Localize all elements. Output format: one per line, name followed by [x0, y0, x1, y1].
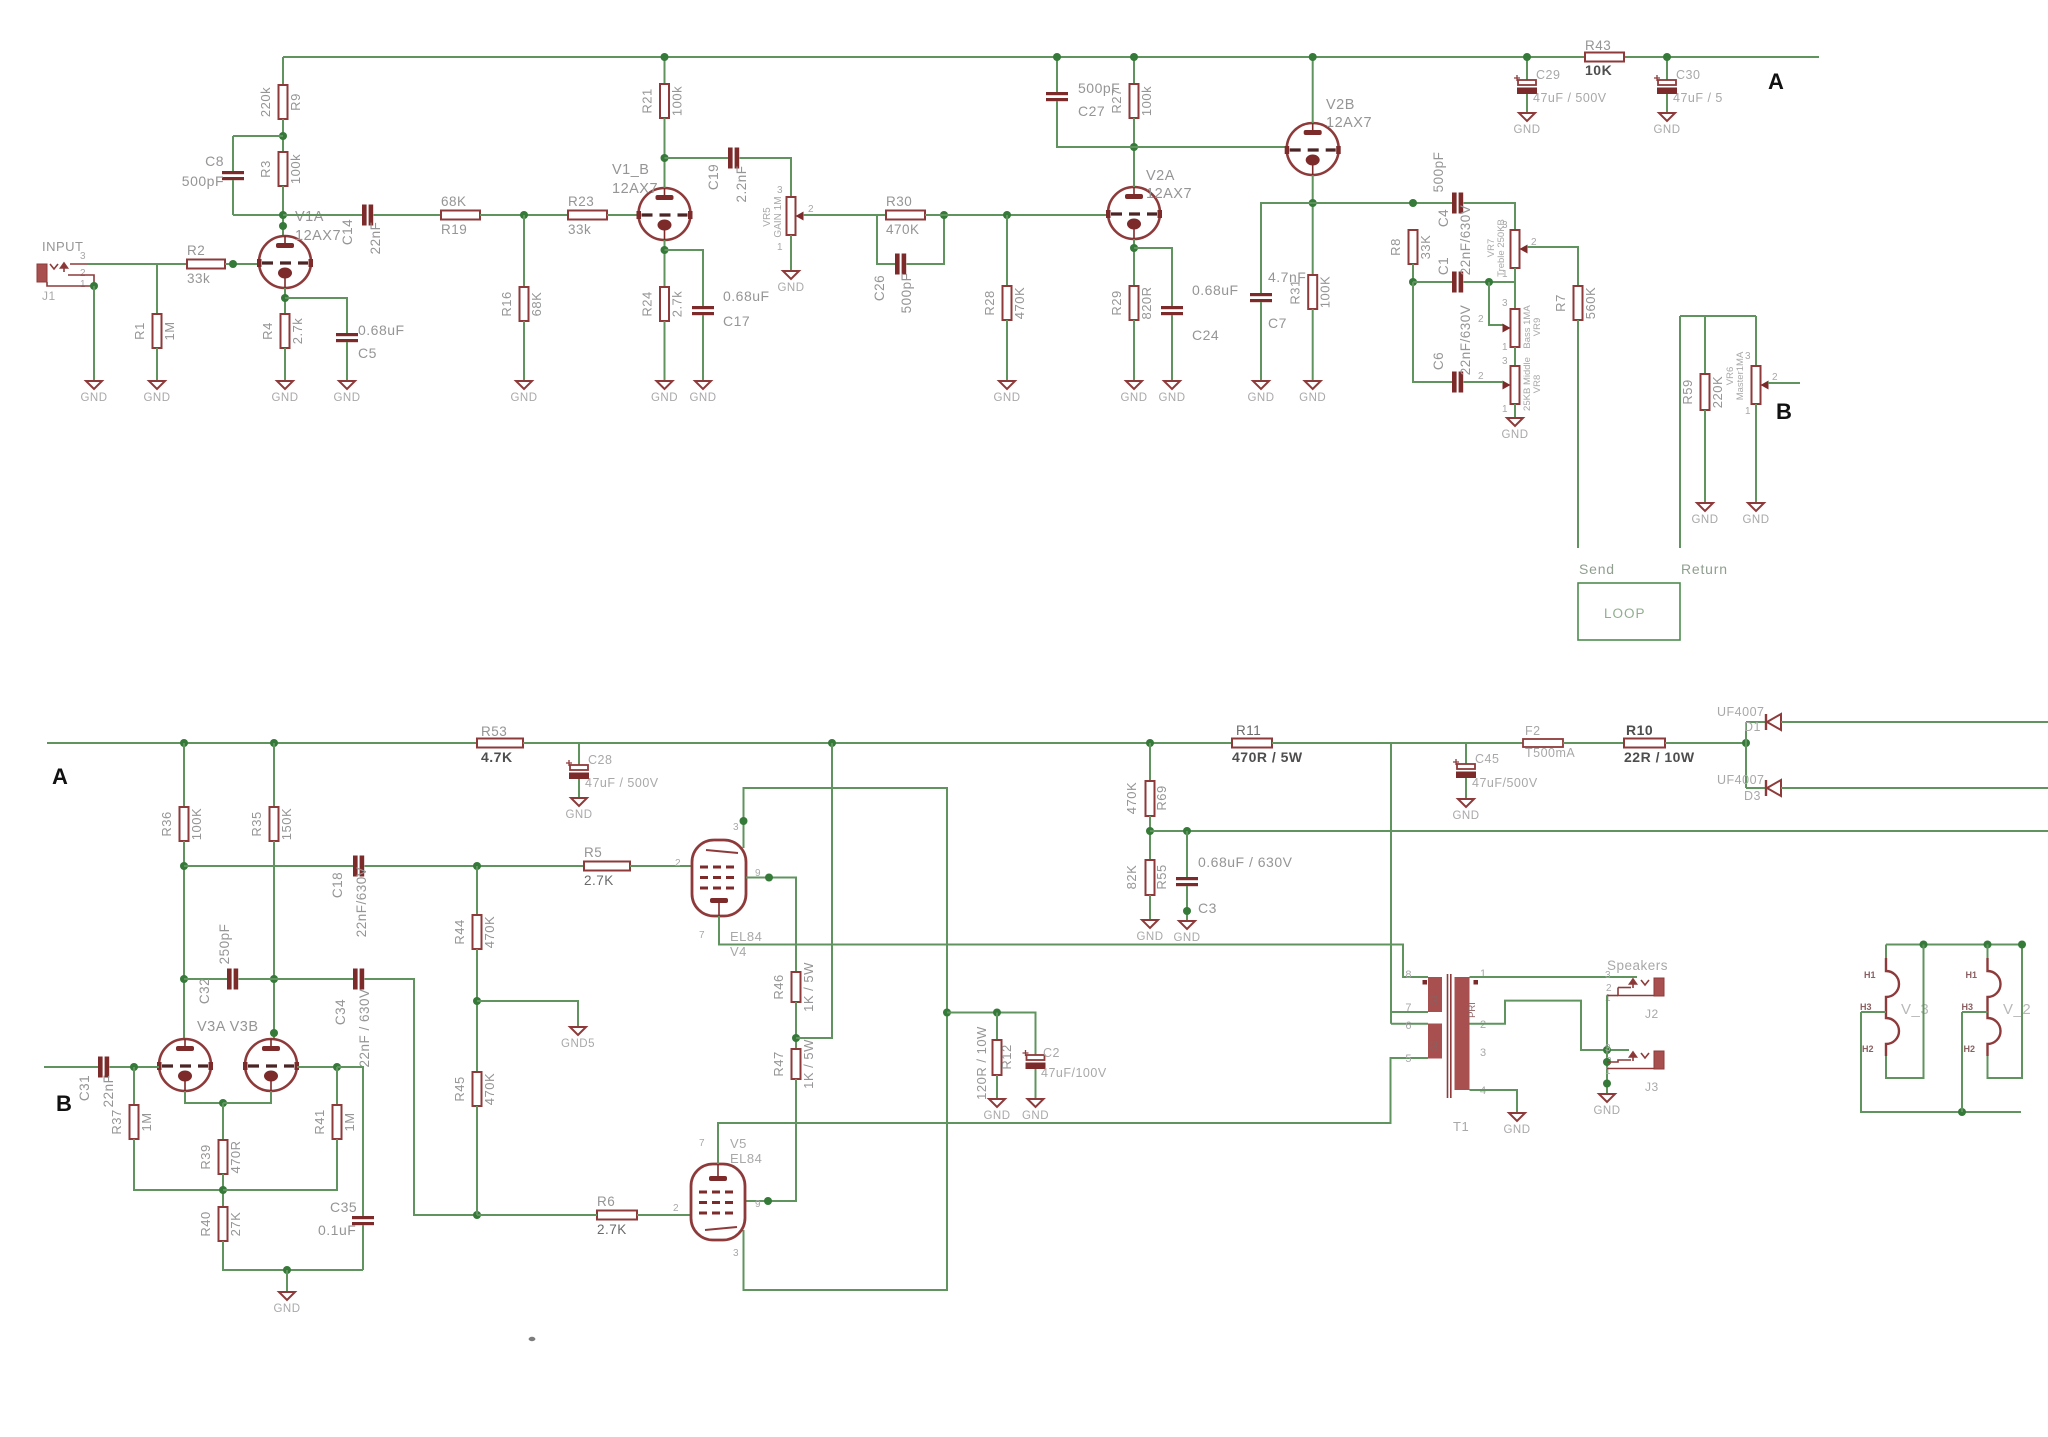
- wire bus to V2B anode: [1312, 57, 1314, 123]
- wire Return vertical: [1679, 316, 1681, 548]
- wire C45 to ground: [1465, 778, 1467, 799]
- ground GND: [1697, 503, 1713, 511]
- wire C1 node down to C6: [1413, 282, 1452, 382]
- resistor R9: [279, 85, 288, 119]
- wire VR7 wiper to R7: [1527, 247, 1578, 286]
- wire to R44: [476, 866, 478, 915]
- wire R59 to ground: [1704, 410, 1706, 503]
- junction R8 top: [1409, 199, 1417, 207]
- junction V_3 return: [1920, 941, 1928, 949]
- junction V5 pin9: [764, 1197, 772, 1205]
- junction bus R27: [1130, 53, 1138, 61]
- svg-text:12AX7: 12AX7: [1146, 186, 1192, 202]
- svg-text:H2: H2: [1964, 1044, 1976, 1054]
- junction bus C27: [1053, 53, 1061, 61]
- wire C8 bottom lead: [232, 180, 234, 215]
- svg-text:C18: C18: [330, 872, 345, 898]
- wire J2 sleeve: [1618, 988, 1654, 996]
- svg-text:470K: 470K: [886, 222, 920, 237]
- wire A bus to R11: [523, 742, 1232, 744]
- svg-text:68K: 68K: [529, 292, 544, 317]
- svg-text:GND: GND: [689, 392, 716, 404]
- junction R9/R3/C8: [279, 132, 287, 140]
- wire VR8 pin1 to ground: [1514, 404, 1516, 418]
- capacitor C19: [728, 148, 733, 169]
- wire V_3 H1: [1885, 945, 1887, 959]
- svg-text:1M: 1M: [342, 1112, 357, 1131]
- svg-text:D1: D1: [1744, 720, 1761, 734]
- wire to R41: [336, 1067, 338, 1105]
- svg-text:3: 3: [1605, 970, 1611, 981]
- resistor R21: [660, 84, 669, 118]
- wire T1 pin4 to ground: [1470, 1090, 1518, 1113]
- svg-text:C35: C35: [330, 1199, 357, 1215]
- wire R2 to V1A grid: [225, 263, 259, 265]
- wire R19 to R23: [480, 214, 568, 216]
- wire bus to C45: [1465, 743, 1467, 764]
- wire R37 to tail node: [134, 1139, 223, 1190]
- ground GND: [1458, 799, 1474, 807]
- resistor R53: [477, 739, 523, 748]
- junction V4 pin3: [740, 817, 748, 825]
- junction R35: [270, 739, 278, 747]
- wire to C1: [1413, 281, 1452, 283]
- wire F2 to R10: [1563, 742, 1624, 744]
- junction R69: [1146, 739, 1154, 747]
- svg-text:22nF: 22nF: [368, 222, 383, 255]
- svg-text:GND: GND: [1653, 124, 1680, 136]
- capacitor C14: [362, 205, 367, 226]
- svg-text:R37: R37: [109, 1109, 124, 1134]
- svg-text:Send: Send: [1579, 561, 1615, 577]
- svg-text:C4: C4: [1436, 209, 1451, 227]
- svg-text:R69: R69: [1154, 785, 1169, 810]
- pentode V4 EL84: [692, 840, 746, 916]
- ground GND: [999, 381, 1015, 389]
- wire heater bus top: [1886, 944, 2022, 946]
- wire bus to R27: [1133, 57, 1135, 84]
- wire D1 to HV winding: [1781, 721, 2048, 723]
- svg-text:H3: H3: [1860, 1002, 1872, 1012]
- svg-text:3: 3: [733, 1248, 739, 1259]
- junction cathode rail: [943, 1009, 951, 1017]
- wire C6 to VR8 wiper: [1464, 381, 1504, 383]
- wire R3 to V1A anode: [282, 186, 284, 236]
- svg-text:1: 1: [1480, 968, 1487, 980]
- svg-text:GND: GND: [1173, 932, 1200, 944]
- capacitor C17: [692, 306, 714, 309]
- junction V1_B cathode: [661, 246, 669, 254]
- junction V4 pin9: [765, 874, 773, 882]
- junction J3 ring: [1603, 1058, 1611, 1066]
- block LOOP (effects loop): [1578, 583, 1680, 640]
- svg-text:R30: R30: [886, 194, 912, 209]
- wire cathode to C5: [285, 298, 347, 333]
- svg-text:470K: 470K: [1124, 782, 1139, 814]
- svg-text:120R / 10W: 120R / 10W: [974, 1026, 989, 1100]
- potentiometer VR8 25KB Middle: [1511, 366, 1520, 404]
- svg-text:820R: 820R: [1139, 286, 1154, 319]
- svg-text:7: 7: [699, 930, 705, 941]
- wire bus to C27: [1056, 57, 1058, 92]
- wire V4/V5 cathode bus: [744, 788, 948, 1290]
- svg-text:7: 7: [699, 1138, 705, 1149]
- wire C28 to ground: [578, 779, 580, 798]
- wire bias node to right edge: [1150, 830, 2048, 832]
- svg-text:T1: T1: [1453, 1119, 1469, 1134]
- capacitor C4: [1452, 193, 1457, 214]
- junction V2A plate node: [1130, 143, 1138, 151]
- wire R31 to ground: [1312, 309, 1314, 381]
- svg-text:GND: GND: [565, 809, 592, 821]
- svg-text:V_2: V_2: [2003, 1001, 2031, 1018]
- svg-text:2.2nF: 2.2nF: [734, 165, 749, 202]
- svg-text:C2: C2: [1043, 1046, 1060, 1060]
- junction V1A anode pin: [279, 222, 287, 230]
- svg-text:100k: 100k: [670, 86, 685, 116]
- resistor R47: [792, 1049, 801, 1079]
- junction bus R21: [661, 53, 669, 61]
- svg-text:R46: R46: [771, 974, 786, 999]
- jack J3: [1654, 1051, 1664, 1069]
- svg-text:22R / 10W: 22R / 10W: [1624, 749, 1695, 765]
- junction C32 left: [180, 975, 188, 983]
- wire V3B cathode: [223, 1091, 271, 1103]
- fuse F2: [1523, 739, 1563, 747]
- svg-text:1K / 5W: 1K / 5W: [801, 1039, 816, 1089]
- resistor R36: [180, 807, 189, 841]
- svg-text:0.68uF: 0.68uF: [358, 322, 405, 338]
- resistor R40: [219, 1207, 228, 1241]
- ground GND: [1142, 920, 1158, 928]
- svg-text:R21: R21: [640, 88, 655, 113]
- wire top B+ bus left of R43: [283, 56, 1585, 58]
- svg-text:1: 1: [1502, 404, 1508, 415]
- junction R8 bottom / C1 / C6: [1409, 278, 1417, 286]
- svg-text:VR8: VR8: [1532, 375, 1543, 393]
- svg-text:R40: R40: [198, 1211, 213, 1236]
- svg-text:GND: GND: [80, 392, 107, 404]
- junction screen feed: [828, 739, 836, 747]
- resistor R19: [441, 211, 480, 220]
- wire R46 to R47: [795, 1002, 797, 1049]
- svg-text:R24: R24: [640, 291, 655, 316]
- resistor R46: [792, 972, 801, 1002]
- wire VR6 pin1 to ground: [1755, 404, 1757, 503]
- wire C27 to plate node: [1057, 101, 1134, 147]
- junction rectifier: [1742, 739, 1750, 747]
- svg-text:GND: GND: [273, 1303, 300, 1315]
- capacitor C26: [895, 254, 900, 275]
- svg-text:GND: GND: [1742, 514, 1769, 526]
- wire VR5 pin1 to ground: [790, 235, 792, 271]
- resistor R39: [219, 1140, 228, 1174]
- svg-text:GND: GND: [271, 392, 298, 404]
- svg-text:GND: GND: [333, 392, 360, 404]
- wire R12 to ground: [996, 1075, 998, 1099]
- resistor R28: [1003, 286, 1012, 320]
- svg-text:82K: 82K: [1124, 865, 1139, 890]
- svg-text:C32: C32: [197, 978, 212, 1004]
- svg-text:J3: J3: [1645, 1080, 1659, 1094]
- svg-text:R9: R9: [288, 93, 303, 111]
- svg-text:1M: 1M: [162, 321, 177, 340]
- wire R4 to ground: [284, 348, 286, 381]
- wire VR7 pin1 to VR9 pin3: [1514, 268, 1516, 309]
- svg-text:C30: C30: [1676, 68, 1700, 82]
- svg-text:A: A: [1768, 69, 1784, 94]
- svg-text:S2: S2: [1429, 1040, 1439, 1051]
- junction J3 sleeve: [1603, 1080, 1611, 1088]
- wire to C32: [184, 978, 227, 980]
- resistor R43: [1585, 53, 1624, 62]
- svg-text:H1: H1: [1864, 970, 1876, 980]
- svg-text:R12: R12: [999, 1044, 1014, 1069]
- resistor R37: [130, 1105, 139, 1139]
- svg-text:470K: 470K: [1012, 287, 1027, 319]
- ground GND: [1253, 381, 1269, 389]
- wire C19 to VR5 pin 3: [740, 158, 792, 197]
- junction R30/C26: [940, 211, 948, 219]
- svg-text:68K: 68K: [441, 194, 467, 209]
- resistor R7: [1574, 286, 1583, 320]
- svg-text:500pF: 500pF: [1078, 80, 1120, 96]
- wire R36 to V3A anode: [183, 841, 185, 1040]
- svg-text:J2: J2: [1645, 1007, 1659, 1021]
- junction R2 output: [229, 260, 237, 268]
- wire R45 to R6 node: [476, 1106, 478, 1215]
- svg-text:R1: R1: [132, 322, 147, 340]
- svg-text:R53: R53: [481, 724, 507, 739]
- svg-text:R23: R23: [568, 194, 594, 209]
- svg-text:B: B: [1776, 399, 1792, 424]
- ground GND: [1507, 418, 1523, 426]
- potentiometer VR9 Bass 1MA: [1511, 309, 1520, 347]
- wire V1A plate to C14: [283, 214, 362, 216]
- wire input to R2: [88, 263, 187, 265]
- svg-text:GND: GND: [1158, 392, 1185, 404]
- ground GND: [1599, 1094, 1615, 1102]
- resistor R1: [153, 314, 162, 348]
- capacitor C29: [1514, 75, 1520, 81]
- wire to VR9 wiper: [1489, 282, 1503, 325]
- wire C35 to bottom node: [362, 1225, 364, 1270]
- svg-text:V_3: V_3: [1901, 1001, 1929, 1018]
- svg-text:R45: R45: [452, 1076, 467, 1101]
- diode D3 UF4007: [1765, 780, 1767, 796]
- capacitor C6: [1452, 372, 1457, 393]
- wire R24 to ground: [664, 321, 666, 381]
- wire to R37: [133, 1067, 135, 1105]
- wire bus to C30: [1666, 57, 1668, 80]
- wire R40 to bottom node: [223, 1241, 363, 1270]
- svg-text:4.7nF: 4.7nF: [1268, 269, 1306, 285]
- resistor R30: [886, 211, 925, 220]
- junction C3: [1183, 827, 1191, 835]
- svg-text:EL84: EL84: [730, 1151, 762, 1166]
- svg-text:1M: 1M: [139, 1112, 154, 1131]
- svg-text:C7: C7: [1268, 315, 1287, 331]
- svg-text:10K: 10K: [1585, 62, 1612, 78]
- svg-text:GND: GND: [143, 392, 170, 404]
- wire C24 to ground: [1171, 315, 1173, 381]
- ground GND: [695, 381, 711, 389]
- svg-text:2: 2: [80, 268, 86, 279]
- ground GND: [279, 1292, 295, 1300]
- svg-text:VR9: VR9: [1532, 318, 1543, 336]
- wire T1 pin2 to J3 tip: [1470, 1001, 1630, 1050]
- svg-text:GND: GND: [1501, 429, 1528, 441]
- wire Return bracket to VR6: [1680, 315, 1756, 317]
- junction R41 top: [333, 1063, 341, 1071]
- svg-text:220K: 220K: [1710, 376, 1725, 408]
- wire R55 to ground: [1149, 895, 1151, 920]
- wire C17 to ground: [702, 315, 704, 381]
- svg-text:PRI: PRI: [1467, 1002, 1478, 1018]
- svg-text:470R / 5W: 470R / 5W: [1232, 749, 1303, 765]
- svg-text:R19: R19: [441, 222, 467, 237]
- svg-text:1: 1: [1502, 342, 1508, 353]
- wire R28 to ground: [1006, 320, 1008, 381]
- jack J1: [37, 264, 47, 282]
- wire rectifier vertical: [1745, 722, 1747, 788]
- jack J2: [1654, 978, 1664, 996]
- wire VR5 wiper to R30: [803, 214, 886, 216]
- svg-text:R8: R8: [1388, 238, 1403, 256]
- ground GND: [1659, 113, 1675, 121]
- wire C5 to ground: [346, 342, 348, 381]
- wire A bus down to T1 centre tap: [1390, 743, 1392, 1024]
- wire to D1: [1746, 721, 1766, 723]
- wire V4 anode to T1 pin 8: [719, 916, 1428, 977]
- junction C32 right: [270, 975, 278, 983]
- svg-text:GND5: GND5: [561, 1038, 595, 1050]
- ground GND: [149, 381, 165, 389]
- svg-text:A: A: [52, 764, 68, 789]
- diode D1 UF4007: [1765, 714, 1767, 730]
- svg-text:C28: C28: [588, 753, 612, 767]
- svg-text:GAIN 1M: GAIN 1M: [773, 196, 784, 237]
- ground GND: [516, 381, 532, 389]
- resistor R16: [520, 287, 529, 321]
- wire V_3 H3 tap: [1861, 1011, 1886, 1013]
- junction R12: [993, 1009, 1001, 1017]
- wire to D3: [1746, 787, 1766, 789]
- svg-text:500pF: 500pF: [1431, 152, 1446, 193]
- potentiometer VR5 GAIN 1M: [787, 197, 796, 235]
- svg-text:V5: V5: [730, 1136, 747, 1151]
- svg-text:Speakers: Speakers: [1607, 958, 1668, 973]
- resistor R10: [1624, 739, 1665, 748]
- svg-text:2: 2: [1478, 314, 1484, 325]
- svg-text:C31: C31: [77, 1075, 92, 1101]
- junction bus C30: [1663, 53, 1671, 61]
- junction V_2 H1: [1984, 941, 1992, 949]
- junction V2A cathode: [1130, 244, 1138, 252]
- wire R6 to V5 grid: [637, 1214, 691, 1216]
- wire speaker ground rail: [1606, 996, 1608, 1095]
- svg-text:Return: Return: [1681, 561, 1728, 577]
- resistor R45: [473, 1072, 482, 1106]
- svg-text:B: B: [56, 1091, 72, 1116]
- capacitor C35: [352, 1216, 374, 1219]
- resistor R11: [1232, 739, 1272, 748]
- ground GND: [86, 381, 102, 389]
- svg-text:GND: GND: [1691, 514, 1718, 526]
- ground GND: [1305, 381, 1321, 389]
- svg-text:12AX7: 12AX7: [612, 181, 658, 197]
- wire bottom A bus left: [47, 742, 477, 744]
- svg-text:100K: 100K: [189, 808, 204, 840]
- ground GND: [571, 798, 587, 806]
- capacitor C5: [336, 333, 358, 336]
- svg-text:R29: R29: [1109, 290, 1124, 315]
- svg-text:C45: C45: [1475, 752, 1499, 766]
- triode V3B 12AX7: [245, 1039, 297, 1091]
- wire to R28: [1006, 215, 1008, 286]
- svg-text:S1: S1: [1429, 994, 1439, 1005]
- wire C3 to ground: [1186, 886, 1188, 921]
- wire R35 to V3B anode: [273, 841, 275, 1040]
- ground GND: [657, 381, 673, 389]
- svg-text:F2: F2: [1525, 724, 1541, 738]
- svg-text:0.68uF: 0.68uF: [1192, 282, 1239, 298]
- junction screen node: [792, 1034, 800, 1042]
- junction GND5 tap: [473, 997, 481, 1005]
- ground GND: [339, 381, 355, 389]
- wire C7 to ground: [1260, 302, 1262, 381]
- triode V1A 12AX7: [259, 236, 311, 288]
- wire T1 pin 6: [1391, 1023, 1428, 1025]
- svg-text:R39: R39: [198, 1144, 213, 1169]
- wire plate node to C18: [184, 865, 353, 867]
- ground GND: [1748, 503, 1764, 511]
- svg-text:GND: GND: [1022, 1110, 1049, 1122]
- ground GND5: [570, 1027, 586, 1035]
- svg-text:47uF/500V: 47uF/500V: [1472, 776, 1538, 790]
- wire V_2 H3 tap: [1962, 1011, 1988, 1013]
- capacitor C24: [1161, 306, 1183, 309]
- svg-text:R11: R11: [1236, 723, 1261, 738]
- wire C8 top lead: [232, 136, 234, 171]
- svg-text:R3: R3: [258, 160, 273, 178]
- svg-text:VR5: VR5: [762, 207, 773, 227]
- wire R44 to R45: [476, 949, 478, 1072]
- svg-text:R43: R43: [1585, 38, 1611, 53]
- wire bus to R36: [183, 743, 185, 807]
- svg-text:2.7K: 2.7K: [584, 873, 614, 888]
- svg-text:2: 2: [808, 204, 814, 215]
- junction jack sleeve: [90, 282, 98, 290]
- wire bracket to R59: [1704, 316, 1706, 374]
- svg-text:C5: C5: [358, 345, 377, 361]
- pentode V5 EL84: [691, 1164, 745, 1240]
- wire C18 to R5: [365, 865, 585, 867]
- svg-text:GND: GND: [1513, 124, 1540, 136]
- svg-text:R59: R59: [1680, 379, 1695, 404]
- svg-text:100k: 100k: [288, 154, 303, 184]
- potentiometer VR6 Master 1MA: [1752, 366, 1761, 404]
- junction R45 bottom: [473, 1211, 481, 1219]
- junction V3A plate node: [180, 862, 188, 870]
- svg-text:9: 9: [755, 1199, 761, 1210]
- svg-text:22nF/630V: 22nF/630V: [1458, 305, 1473, 376]
- svg-text:GND: GND: [993, 392, 1020, 404]
- svg-text:27K: 27K: [228, 1212, 243, 1237]
- resistor R69: [1146, 781, 1155, 816]
- svg-text:GND: GND: [1299, 392, 1326, 404]
- junction R37 top: [130, 1063, 138, 1071]
